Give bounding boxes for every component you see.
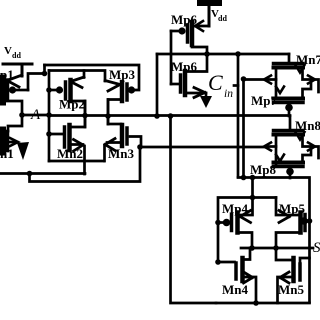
pass transistor Mn7 — [244, 52, 320, 97]
wire select vertical 2 — [242, 79, 245, 178]
wire Cin input rail — [170, 31, 173, 84]
transistor Mn1 — [0, 130, 18, 161]
junction dot rail-Mp2 gate — [46, 87, 52, 93]
transistor Mp5 — [276, 198, 308, 249]
junction dot Mp6 drain — [204, 51, 210, 57]
node A junction dot — [19, 112, 25, 118]
transistor Mn6 — [171, 54, 207, 98]
junction dot rail-A wire — [46, 112, 52, 118]
transistor Mn2 — [49, 116, 85, 175]
wire Mp1 gate jog to T1 rail — [28, 65, 45, 90]
pass transistor Mp7 — [251, 80, 311, 117]
junction dot Mn4 source — [253, 300, 259, 306]
svg-text:Mn4: Mn4 — [222, 282, 249, 297]
junction dot — [241, 175, 247, 181]
svg-text:A: A — [30, 107, 41, 123]
power Vdd (top middle) — [197, 0, 227, 26]
junction dot rail at A wire — [168, 113, 174, 119]
junction dot latch top — [250, 195, 256, 201]
junction dot — [27, 171, 33, 177]
junction dot Mp3/Mn3 drain column — [105, 113, 111, 119]
wire Cin-bar horizontal — [157, 53, 289, 56]
svg-text:V: V — [4, 45, 12, 57]
junction dot — [250, 175, 256, 181]
wire inverter output column Mp2/Mn2 — [84, 101, 87, 127]
transistor Mn5 — [276, 248, 310, 303]
wire gate line to latch — [238, 178, 310, 303]
junction dot Mp5 drain — [273, 245, 279, 251]
wire latch bottom rail — [216, 302, 310, 305]
transistor Mp6 — [171, 12, 209, 54]
wire A-rail bottom to Mn3 source — [49, 160, 104, 163]
power Vdd (left) — [3, 45, 32, 76]
transistor Mp3 — [105, 67, 136, 116]
pass transistor Mn8 — [264, 116, 320, 165]
svg-text:C: C — [208, 70, 223, 95]
wire Cin-bar down to A wire — [156, 54, 159, 116]
wire sum node S — [241, 247, 313, 250]
junction dot select wire — [235, 51, 241, 57]
transistor Mn3 — [105, 124, 142, 161]
wire A node to rail — [22, 114, 49, 117]
svg-text:dd: dd — [12, 51, 21, 60]
junction dot Mn4 gate — [215, 259, 221, 265]
wire top rail T1 (to Mp3 gate) — [45, 65, 140, 90]
current arrow (down) at Mn1 — [17, 142, 29, 160]
wire to Mn3 gate node — [30, 147, 141, 182]
node junction dot — [42, 71, 48, 77]
svg-text:S: S — [313, 240, 320, 256]
wire Mn3 drain to column — [107, 116, 110, 124]
junction dot Mn3 gate node — [137, 144, 143, 150]
wire stem to latch top — [251, 178, 254, 198]
junction dot Mp4 drain — [249, 245, 255, 251]
input Cin label — [208, 70, 238, 100]
junction dot Mp5 gate — [307, 218, 313, 224]
junction dot rail-Mn2 gate — [46, 131, 52, 137]
junction dot Mp4 gate — [215, 220, 221, 226]
wire Mn2 source return — [0, 172, 85, 175]
svg-text:Mn5: Mn5 — [278, 282, 305, 297]
wire top rail T2 (A to Mp3 source) — [49, 71, 105, 82]
junction dot — [82, 113, 88, 119]
wire latch top rail — [218, 198, 276, 263]
input Cin arrow — [205, 93, 208, 96]
svg-text:dd: dd — [218, 14, 227, 23]
transistor Mp2 — [49, 71, 85, 116]
pass transistor Mp8 — [250, 147, 311, 179]
svg-text:in: in — [224, 88, 233, 100]
wire vertical rail A — [48, 71, 51, 162]
wire select vertical 1 — [237, 54, 240, 177]
wire Mp1 drain jog to Mn1 — [8, 115, 22, 131]
wire select line to pass gate Mn8 — [140, 146, 268, 149]
transistor Mn4 — [218, 248, 256, 303]
junction dot TG1 left terminal — [241, 76, 247, 82]
wire node A horizontal — [49, 114, 290, 117]
transistor Mp1 — [0, 67, 28, 115]
transistor Mp4 — [218, 198, 253, 249]
junction dot — [154, 113, 160, 119]
